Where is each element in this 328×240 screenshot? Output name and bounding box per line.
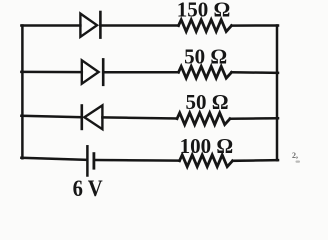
battery BT1 6V: [87, 146, 94, 175]
wire branch4 right segment: [233, 159, 279, 162]
wire branch3 left segment: [21, 116, 81, 117]
svg-text:150 Ω: 150 Ω: [177, 0, 231, 21]
wire left rail: [21, 26, 24, 159]
wire branch4 left segment: [21, 158, 86, 160]
resistor R4 100 ohm: [180, 155, 233, 167]
resistor R2 50 ohm: [179, 66, 232, 78]
wire branch2 middle segment: [103, 71, 178, 74]
wire branch4 middle segment: [95, 159, 179, 162]
resistor R3 50 ohm: [177, 113, 230, 125]
diode D1: [80, 12, 100, 38]
wire branch1 right segment: [232, 24, 279, 27]
wire branch1 middle segment: [100, 24, 178, 27]
svg-text:2,: 2,: [292, 151, 298, 160]
diode D3: [82, 105, 103, 129]
svg-text:6 V: 6 V: [73, 176, 103, 201]
svg-text:50 Ω: 50 Ω: [186, 90, 229, 114]
wire branch3 right segment: [230, 117, 278, 120]
svg-text:50 Ω: 50 Ω: [184, 45, 227, 69]
diode D2: [82, 59, 103, 84]
wire branch2 left segment: [21, 71, 81, 74]
wire right rail: [276, 26, 279, 161]
resistor R1 150 ohm: [179, 20, 232, 32]
smudge speck right: [296, 161, 301, 163]
svg-text:100 Ω: 100 Ω: [180, 134, 234, 158]
wire branch3 middle segment: [102, 117, 177, 118]
wire branch2 right segment: [232, 71, 279, 74]
wire branch1 left segment: [21, 24, 80, 27]
